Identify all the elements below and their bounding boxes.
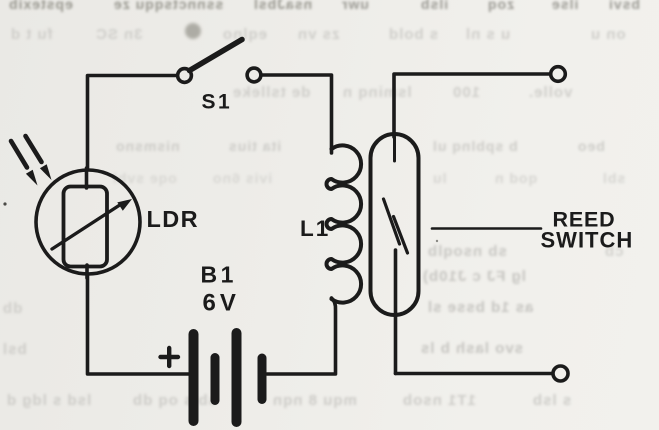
svg-text:S1: S1: [202, 91, 233, 114]
LDR resistor rectangle: [64, 187, 108, 267]
bleed-through text fragments (print show-through from reverse page): [8, 0, 73, 12]
battery B1 plate 4 (short): [258, 354, 267, 405]
speck on left margin: [3, 202, 6, 205]
light arrow 1 head: [26, 170, 38, 186]
reed blade B: [394, 217, 408, 254]
LDR variability arrow head: [117, 199, 132, 211]
battery B1 plate 1 (long): [189, 329, 199, 426]
reed blade A: [384, 199, 400, 244]
speck below pointer line: [436, 240, 438, 242]
svg-text:6V: 6V: [203, 290, 240, 317]
battery plus sign: [161, 348, 179, 366]
reed bottom lead through capsule to bottom wire: [394, 250, 398, 374]
LDR top lead stub: [85, 168, 89, 188]
wire: S1 right terminal to coil L1 top: [263, 75, 332, 153]
LDR variability arrow shaft: [52, 206, 119, 250]
switch S1 lever: [190, 40, 243, 71]
battery B1 plate 2 (short): [211, 353, 220, 405]
light arrow 1 shaft: [11, 141, 27, 168]
wire: coil L1 bottom to battery positive: [267, 298, 336, 374]
svg-text:L1: L1: [300, 216, 330, 241]
wire: LDR bottom to battery negative: [88, 274, 189, 374]
reed switch capsule: [371, 134, 419, 315]
terminal top-right: [551, 67, 566, 82]
switch S1 right terminal: [247, 68, 261, 82]
svg-text:SWITCH: SWITCH: [541, 228, 634, 253]
wire: reed bottom lead to bottom-right terminal: [396, 372, 552, 376]
light arrow 2 head: [40, 164, 52, 180]
light arrow 2 shaft: [26, 136, 42, 162]
svg-text:LDR: LDR: [147, 206, 200, 232]
LDR circle body: [36, 170, 140, 274]
pointer line to REED SWITCH label: [432, 227, 541, 230]
switch S1 left terminal: [178, 69, 192, 83]
wire: top-right terminal to reed capsule: [394, 74, 550, 137]
gray smudge dot above S1: [185, 23, 201, 39]
terminal bottom-right: [553, 366, 568, 381]
LDR bottom lead stub: [85, 265, 89, 278]
svg-text:B1: B1: [201, 262, 237, 288]
wire: S1 left terminal to LDR top: [88, 76, 177, 171]
inductor L1 coil (4 loops): [327, 145, 362, 302]
battery B1 plate 3 (long): [232, 328, 242, 427]
reed top lead stub inside capsule: [393, 137, 396, 161]
